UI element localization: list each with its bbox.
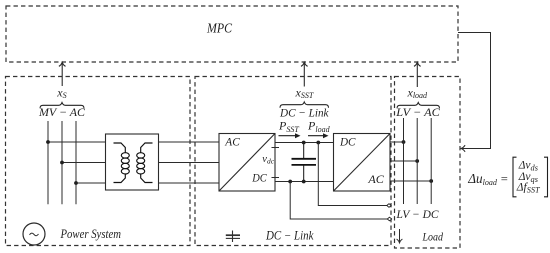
arrow P_SST	[279, 133, 301, 138]
junction bus1/feeder1	[46, 140, 50, 144]
AC source sine	[30, 233, 39, 236]
wire inverter out1	[390, 141, 404, 143]
arrow P_load	[308, 133, 329, 138]
junction LVDC minus tap	[288, 180, 292, 184]
svg-text:Power System: Power System	[60, 227, 122, 241]
arrowhead MPC output	[461, 145, 465, 152]
wire LVDC minus	[290, 182, 387, 220]
wire feeder1	[48, 141, 106, 143]
wire bus2 vertical	[61, 121, 63, 204]
arrow load down	[397, 229, 403, 243]
power system dashed box	[6, 77, 191, 246]
wire transformer to converter line1	[159, 141, 220, 143]
capacitor C_dc	[292, 143, 317, 182]
junction bus3/feeder3	[74, 181, 78, 185]
junction cap top	[302, 141, 306, 145]
AC source G1	[23, 223, 45, 245]
arrow x_load to MPC	[414, 62, 421, 87]
wire transformer to converter line3	[159, 182, 220, 184]
wire DC top rail	[275, 142, 334, 144]
svg-text:DC − Link: DC − Link	[265, 229, 314, 243]
junction LVDC plus tap	[316, 141, 320, 145]
load dashed box	[395, 77, 461, 249]
arrow x_SST to MPC	[301, 62, 308, 86]
junction bus2/feeder2	[60, 161, 64, 165]
converter AC/DC box	[219, 134, 275, 192]
wire transformer to converter line2	[159, 162, 220, 164]
svg-text:MPC: MPC	[206, 21, 232, 36]
svg-text:MV − AC: MV − AC	[38, 105, 86, 119]
transformer T1 box	[106, 134, 159, 190]
minus mark	[272, 177, 280, 179]
svg-text:DC: DC	[251, 171, 267, 185]
overbrace MV-AC	[40, 103, 84, 109]
wire feeder2	[62, 162, 106, 164]
wire inverter out2	[390, 160, 417, 162]
wire inverter out3	[390, 180, 431, 182]
svg-text:AC: AC	[224, 134, 240, 148]
wire DC bottom rail	[275, 181, 334, 183]
arrow xS to MPC	[59, 62, 66, 86]
junction out1	[402, 140, 406, 144]
converter DC/AC box	[334, 134, 391, 192]
wire feeder3	[76, 182, 106, 184]
junction out3	[429, 179, 433, 183]
wire load bus3	[430, 118, 432, 204]
ground symbol	[226, 231, 240, 243]
wire bus1 vertical	[47, 121, 49, 204]
wire MPC output	[458, 33, 491, 149]
DC-link dashed box	[195, 77, 391, 246]
connector diamond minus	[387, 217, 391, 221]
svg-text:LV − AC: LV − AC	[395, 105, 441, 119]
transformer T1 primary winding	[114, 143, 130, 183]
wire LVDC plus	[318, 143, 387, 206]
svg-text:DC − Link: DC − Link	[279, 105, 329, 119]
transformer T1 secondary winding	[137, 143, 153, 183]
junction cap bottom	[302, 180, 306, 184]
junction out2	[415, 159, 419, 163]
svg-text:DC: DC	[339, 134, 356, 148]
wire bus3 vertical	[75, 121, 77, 204]
matrix left bracket	[513, 157, 517, 197]
wire load bus2	[416, 118, 418, 204]
svg-text:Load: Load	[422, 230, 444, 244]
svg-text:LV − DC: LV − DC	[396, 207, 440, 221]
svg-text:vdc: vdc	[262, 154, 274, 166]
overbrace LV-AC	[397, 103, 440, 109]
connector diamond plus	[387, 204, 391, 208]
matrix right bracket	[544, 157, 548, 197]
svg-text:AC: AC	[367, 172, 385, 186]
overbrace DC-Link	[280, 102, 329, 108]
MPC controller dashed box	[6, 6, 458, 62]
wire load bus1	[403, 118, 405, 204]
plus mark	[272, 147, 280, 149]
